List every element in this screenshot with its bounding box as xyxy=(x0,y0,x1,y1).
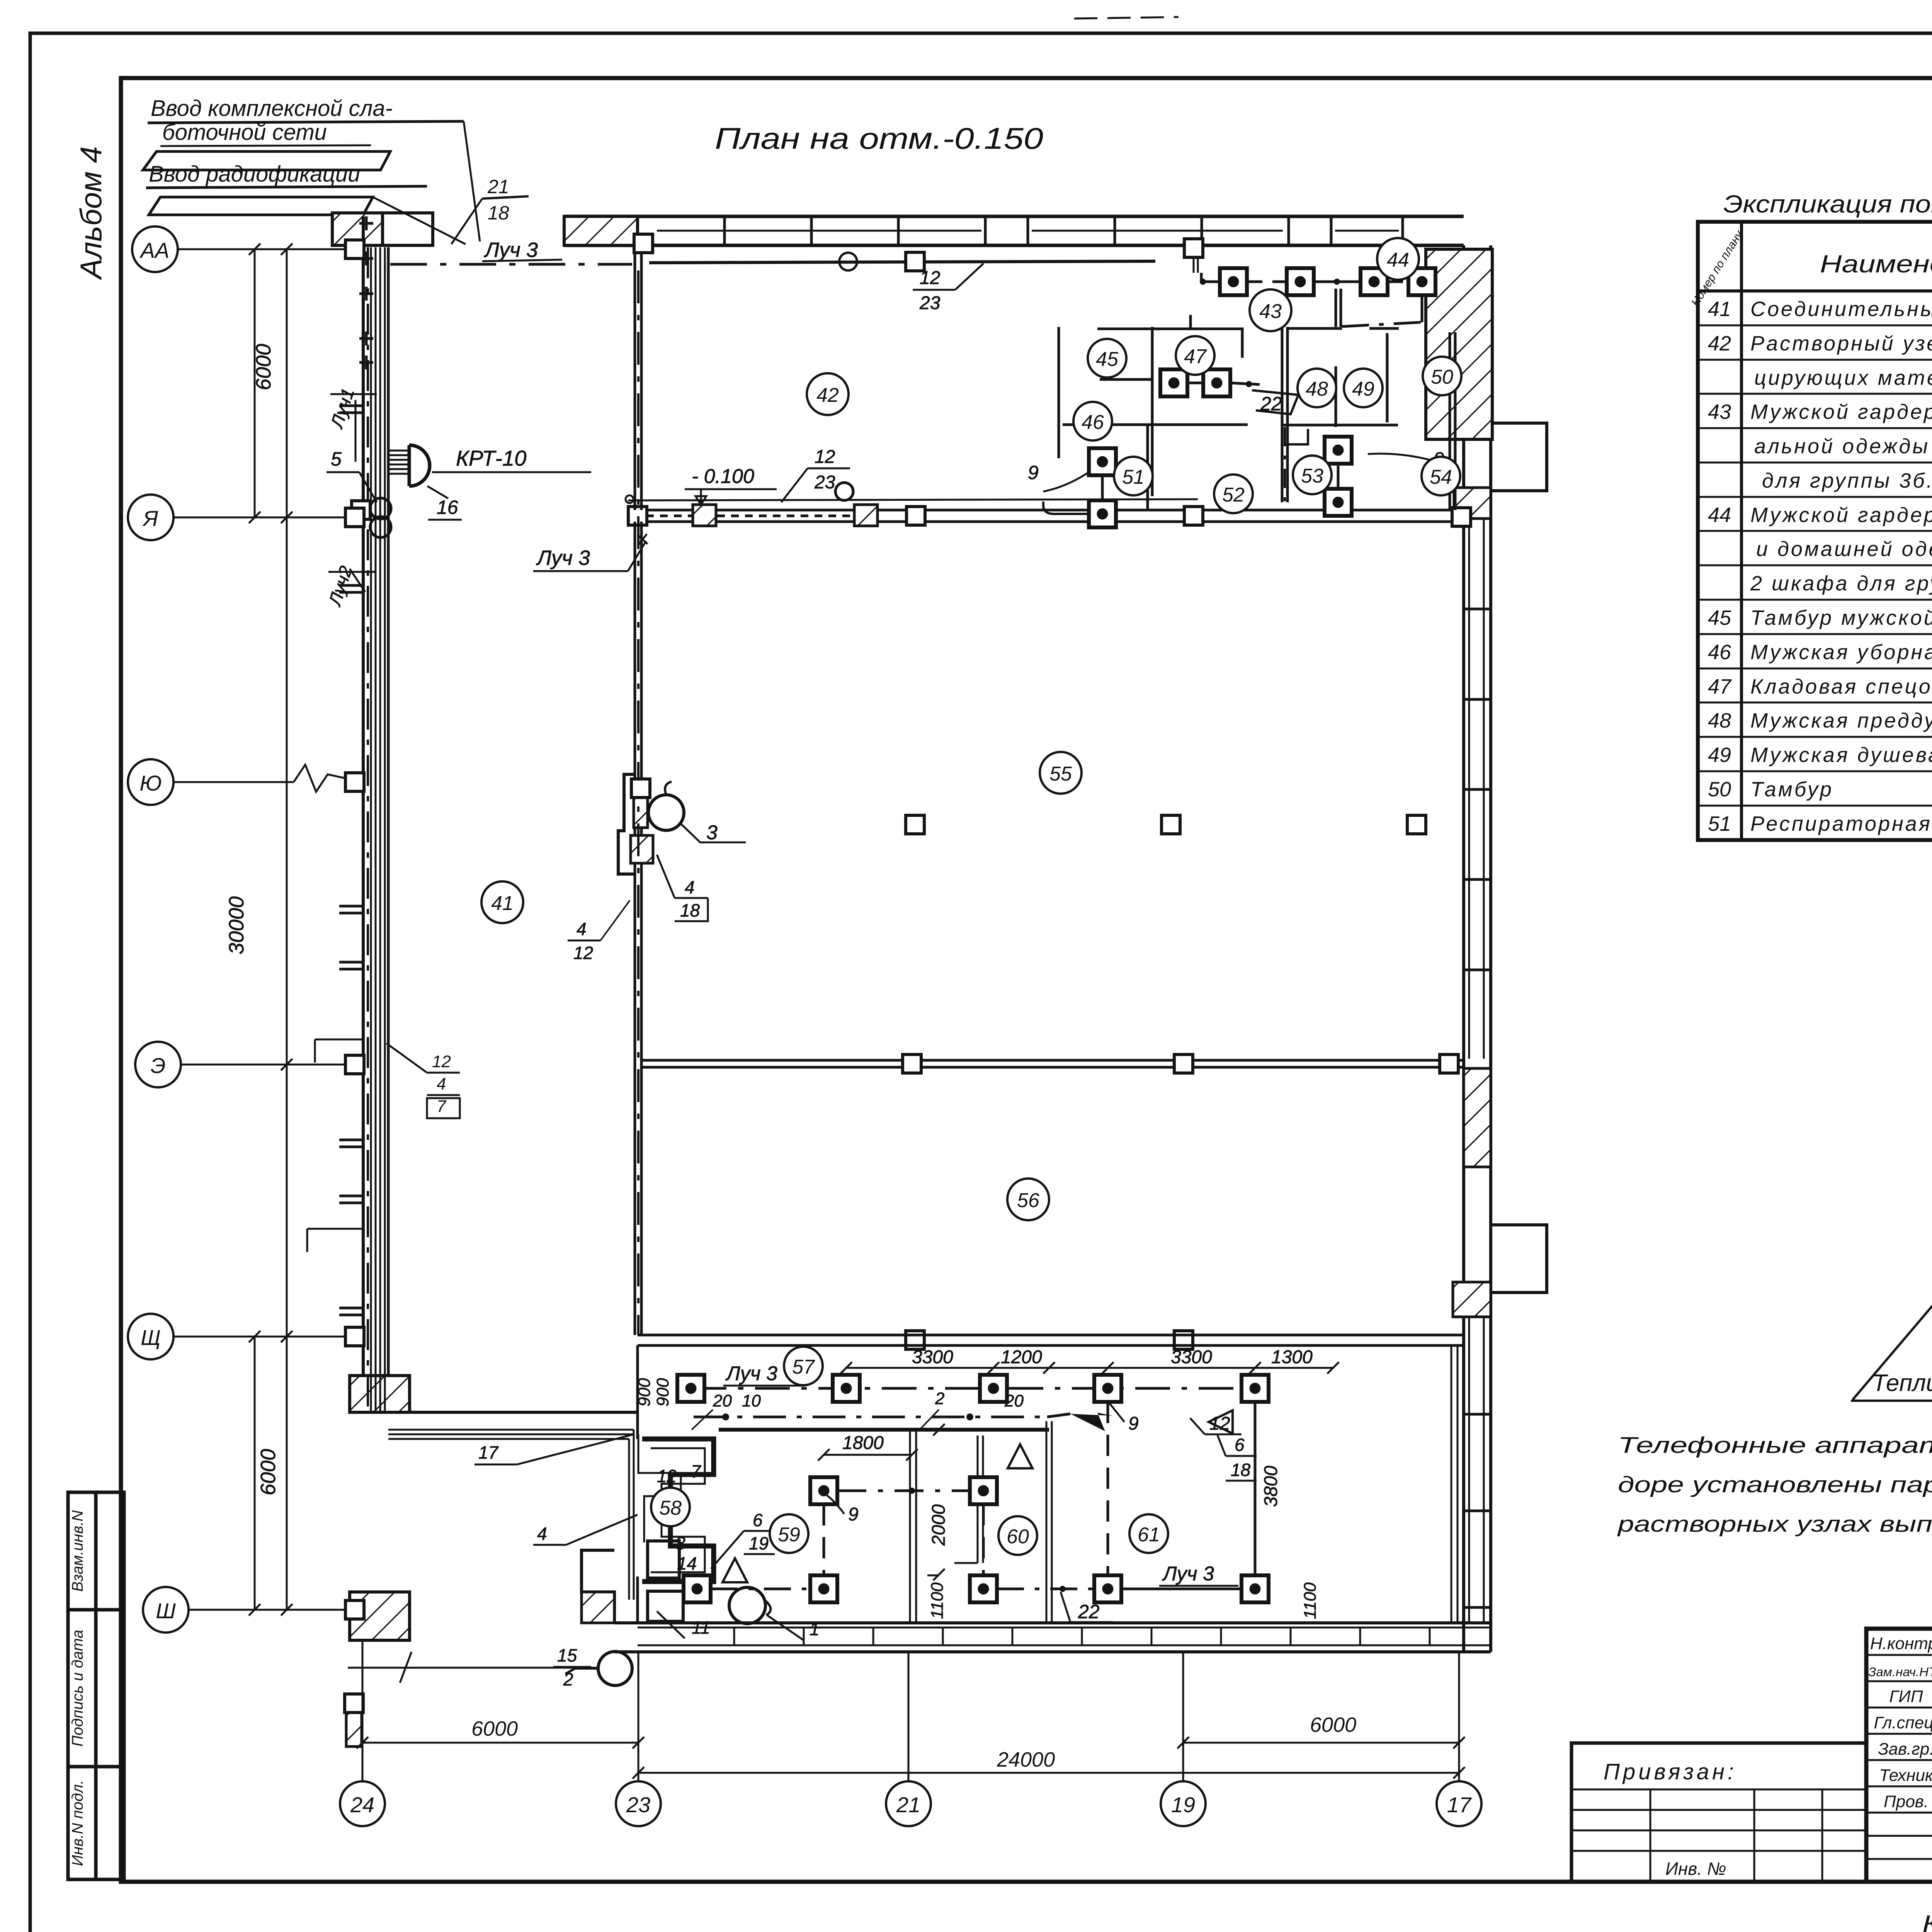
svg-text:54: 54 xyxy=(1430,466,1452,488)
room circle 56 xyxy=(1007,1179,1049,1220)
wall to lower block xyxy=(410,1411,638,1414)
tambur 58 walls xyxy=(642,1439,714,1582)
labels 20 10 2 20 xyxy=(713,1389,1024,1410)
personnel role labels xyxy=(1868,1634,1932,1811)
tee wall in room 60 xyxy=(954,1435,983,1563)
svg-text:Экспликация помещений: Экспликация помещений xyxy=(1723,190,1932,218)
free columns in hall 55 xyxy=(906,815,924,834)
svg-text:18: 18 xyxy=(680,900,700,920)
svg-text:Взам.инв.N: Взам.инв.N xyxy=(69,1510,86,1592)
room circle 46 xyxy=(1073,402,1112,440)
svg-text:доре установлены параллельн: доре установлены параллельно. Проводка в xyxy=(1618,1472,1932,1497)
svg-text:50: 50 xyxy=(1431,366,1453,388)
flag symbol 2 xyxy=(149,197,373,215)
svg-text:57: 57 xyxy=(792,1356,815,1378)
left wall wiring bundle xyxy=(371,247,385,1412)
svg-text:План на отм.-0.150: План на отм.-0.150 xyxy=(715,121,1043,155)
svg-text:12: 12 xyxy=(573,943,593,963)
lower block: luch3 row1 dash-dot xyxy=(692,1387,1256,1390)
wall squares on W1 xyxy=(628,507,647,525)
svg-text:42: 42 xyxy=(1708,332,1731,355)
KRT-10 semicircle xyxy=(409,445,430,486)
dim 3300 1200 row xyxy=(846,1367,1333,1369)
svg-text:12: 12 xyxy=(657,1466,677,1486)
svg-text:46: 46 xyxy=(1082,411,1104,434)
wire segments between boxes xyxy=(1247,281,1287,283)
svg-text:Гл.спец.: Гл.спец. xyxy=(1874,1713,1932,1732)
W1 hatched pier b xyxy=(854,505,878,526)
svg-text:Альбом 4: Альбом 4 xyxy=(74,146,108,281)
room circle 61 xyxy=(1129,1514,1168,1553)
fraction 21/18 xyxy=(487,176,509,224)
svg-text:19: 19 xyxy=(1171,1793,1195,1817)
bottom row wires xyxy=(711,1588,810,1590)
fraction 12/4/7 near grid Э xyxy=(432,1052,451,1116)
svg-text:Мужской гардероб уличной: Мужской гардероб уличной xyxy=(1750,503,1932,527)
hatched pier big on luch3 wall xyxy=(631,835,653,863)
svg-text:3800: 3800 xyxy=(1261,1466,1281,1507)
svg-text:61: 61 xyxy=(1138,1524,1160,1546)
svg-text:растворных узлах выполнена: растворных узлах выполнена в трубах. xyxy=(1617,1512,1932,1537)
svg-text:Респираторная: Респираторная xyxy=(1750,812,1932,835)
vertical wall at grid 23 (left of room 42) xyxy=(634,251,636,510)
room circle 41 xyxy=(481,881,523,923)
svg-text:Щ: Щ xyxy=(141,1325,161,1350)
svg-text:6000: 6000 xyxy=(257,1449,280,1495)
svg-text:45: 45 xyxy=(1096,348,1119,371)
svg-text:23: 23 xyxy=(814,472,835,493)
svg-text:51: 51 xyxy=(1122,466,1145,488)
circle symbol on W1 xyxy=(835,483,853,500)
square symbol on wire xyxy=(906,252,924,271)
svg-text:и домашней одежды на: и домашней одежды на xyxy=(1756,537,1932,561)
dim ticks on vertical 2000 line xyxy=(927,1424,951,1580)
svg-text:5: 5 xyxy=(331,448,342,470)
tambur cabinets xyxy=(648,1541,679,1578)
leader line 1 to corner xyxy=(464,121,480,241)
svg-text:16: 16 xyxy=(437,497,458,518)
left exterior wall xyxy=(362,216,365,1412)
svg-text:22: 22 xyxy=(1260,393,1282,415)
lower block left wall upper xyxy=(636,1345,639,1439)
room circle 42 xyxy=(807,373,849,415)
partition 49/50 top xyxy=(1369,327,1399,330)
svg-text:18: 18 xyxy=(1231,1460,1251,1480)
svg-text:45: 45 xyxy=(1708,606,1731,629)
svg-text:Соединительный коридор: Соединительный коридор xyxy=(1750,298,1932,321)
teplitsa leader xyxy=(1853,1289,1932,1400)
wire along W1 xyxy=(628,499,1198,500)
svg-text:1200: 1200 xyxy=(1001,1347,1042,1367)
room circle 50 xyxy=(1423,357,1461,395)
svg-text:41: 41 xyxy=(491,892,514,915)
outside pier below grid24 xyxy=(350,1592,410,1640)
svg-text:30000: 30000 xyxy=(225,896,248,954)
wall W2 between 55 and 56 xyxy=(641,1059,1464,1062)
right exterior wall xyxy=(1462,245,1465,1652)
margin stamp boxes xyxy=(68,1492,124,1879)
svg-text:3300: 3300 xyxy=(912,1347,953,1367)
flag symbol 1 xyxy=(143,151,390,170)
svg-text:9: 9 xyxy=(1128,1413,1139,1434)
svg-text:Луч 3: Луч 3 xyxy=(484,238,538,262)
svg-text:9: 9 xyxy=(1028,462,1039,483)
svg-text:900: 900 xyxy=(653,1378,672,1406)
svg-text:Луч 3: Луч 3 xyxy=(1162,1563,1214,1585)
svg-text:11: 11 xyxy=(692,1617,710,1638)
wire along top wall xyxy=(649,261,1155,263)
svg-text:Мужской гардероб специ-: Мужской гардероб специ- xyxy=(1750,400,1932,423)
boxes room 47 xyxy=(1160,369,1187,396)
small dot circle near W1 junction xyxy=(626,495,633,503)
partition 43/48 xyxy=(1281,327,1284,502)
svg-text:Привязан:: Привязан: xyxy=(1604,1759,1737,1784)
vertical dashes xyxy=(823,1504,825,1575)
svg-text:20: 20 xyxy=(1004,1391,1024,1410)
triangles earth symbols xyxy=(723,1558,747,1582)
partition 47 bottom xyxy=(1063,423,1248,426)
bottom grid circles xyxy=(340,1781,1481,1826)
inner leaf near room 50 xyxy=(1449,332,1451,510)
svg-text:Мужская душевая: Мужская душевая xyxy=(1750,743,1932,767)
svg-text:24000: 24000 xyxy=(997,1748,1055,1771)
partition 49/50 xyxy=(1386,333,1389,422)
corridor bundle to tambur xyxy=(388,1430,634,1600)
room circle 59 xyxy=(770,1514,808,1553)
svg-text:- 0.100: - 0.100 xyxy=(692,465,754,488)
svg-text:Тамбур мужской уборной: Тамбур мужской уборной xyxy=(1750,606,1932,629)
svg-text:21: 21 xyxy=(487,176,509,197)
row2 continuation to 61 xyxy=(1047,1414,1070,1417)
dim line outside porch xyxy=(348,1667,597,1669)
svg-text:Ввод комплексной сла-: Ввод комплексной сла- xyxy=(151,96,393,121)
personnel rows xyxy=(1866,1655,1932,1859)
svg-text:для группы 3б.: для группы 3б. xyxy=(1762,469,1932,492)
svg-text:Луч 3: Луч 3 xyxy=(536,546,590,570)
svg-text:4: 4 xyxy=(537,1524,547,1544)
right wall bay 2 xyxy=(1491,1225,1547,1293)
room circle 57 xyxy=(784,1347,823,1385)
svg-text:Теплица: Теплица xyxy=(1872,1370,1932,1396)
svg-text:Я: Я xyxy=(142,506,158,531)
hatched pier small on luch3 wall xyxy=(634,795,648,828)
svg-text:49: 49 xyxy=(1708,743,1731,767)
table 1 numbers xyxy=(1708,298,1732,835)
dash wire 48 down xyxy=(1284,427,1286,510)
room circle 44 xyxy=(1377,238,1419,280)
W1 in-wall dashes xyxy=(646,515,692,517)
svg-text:Тамбур: Тамбур xyxy=(1750,778,1833,801)
svg-text:Растворный узел дезинфи-: Растворный узел дезинфи- xyxy=(1750,332,1932,355)
svg-text:4: 4 xyxy=(577,919,587,939)
partition 60/61 xyxy=(1046,1421,1048,1623)
fraction 15/2 xyxy=(557,1645,577,1689)
svg-text:51: 51 xyxy=(1708,812,1731,835)
lower block inner right leaf xyxy=(1451,1345,1452,1623)
svg-text:42: 42 xyxy=(816,384,839,406)
porch left of tambur xyxy=(582,1550,614,1623)
phone circle room 59 xyxy=(729,1587,765,1624)
svg-text:Кладовая спецодежды: Кладовая спецодежды xyxy=(1750,675,1932,698)
svg-text:КРТ-10: КРТ-10 xyxy=(456,446,526,470)
svg-text:1: 1 xyxy=(810,1619,820,1639)
room circle 60 xyxy=(998,1516,1037,1555)
circle symbol on wire xyxy=(839,253,857,270)
privyazan box xyxy=(1571,1743,1866,1882)
svg-text:4: 4 xyxy=(685,877,695,897)
svg-text:58: 58 xyxy=(659,1497,682,1519)
svg-text:Ввод радиофикации: Ввод радиофикации xyxy=(149,162,360,187)
svg-text:Инв.N подл.: Инв.N подл. xyxy=(69,1780,86,1866)
row1 boxes xyxy=(677,1375,704,1402)
svg-text:12: 12 xyxy=(920,268,940,288)
svg-text:3300: 3300 xyxy=(1171,1347,1212,1367)
room circle 53 xyxy=(1293,456,1332,494)
right wall top hatched slab xyxy=(1426,249,1492,439)
label 6/19 xyxy=(749,1510,769,1553)
fraction 4/12 xyxy=(573,919,593,963)
wall 43/44 stub xyxy=(1335,289,1337,327)
svg-text:Телефонные аппараты в раство: Телефонные аппараты в растворном узле и … xyxy=(1618,1433,1932,1458)
bundle hook at tambur xyxy=(638,1434,681,1543)
svg-text:44: 44 xyxy=(1708,503,1731,527)
svg-text:2000: 2000 xyxy=(929,1504,949,1546)
svg-text:60: 60 xyxy=(1007,1526,1029,1548)
room circle 55 xyxy=(1040,752,1082,794)
partition 45/47 top xyxy=(1097,329,1242,358)
interior wall W1 below rooms 42-54 xyxy=(638,509,1464,512)
svg-text:6000: 6000 xyxy=(1310,1713,1356,1736)
luch3 vertical dash-dot xyxy=(637,270,639,1335)
svg-text:Ю: Ю xyxy=(139,771,162,795)
svg-text:Э: Э xyxy=(151,1053,166,1078)
room circle 52 xyxy=(1214,474,1253,513)
leader line 2 to corner xyxy=(373,197,466,244)
svg-text:3: 3 xyxy=(706,821,718,844)
svg-text:АА: АА xyxy=(139,238,170,262)
svg-text:Мужская преддушевая: Мужская преддушевая xyxy=(1750,709,1932,732)
row2 dash-dot corridor xyxy=(694,1416,1047,1418)
lower block left wall lower xyxy=(636,1577,639,1623)
svg-text:19: 19 xyxy=(749,1533,769,1553)
table 1 grid xyxy=(1698,222,1932,840)
luch3 dash-dot across top xyxy=(390,263,632,266)
svg-text:цирующих материалов: цирующих материалов xyxy=(1754,366,1932,389)
svg-text:52: 52 xyxy=(1222,484,1245,506)
svg-text:Техник: Техник xyxy=(1879,1766,1932,1785)
svg-text:6: 6 xyxy=(753,1510,763,1530)
svg-text:9: 9 xyxy=(848,1504,859,1525)
right wall hatched piers xyxy=(1454,488,1491,519)
luch3 wall jog outline xyxy=(618,774,635,874)
svg-text:Инв. №: Инв. № xyxy=(1665,1859,1726,1879)
room circle 45 xyxy=(1088,339,1126,378)
svg-text:2: 2 xyxy=(935,1389,944,1408)
svg-text:6: 6 xyxy=(1235,1435,1245,1455)
svg-text:12: 12 xyxy=(1209,1413,1230,1434)
svg-text:12: 12 xyxy=(432,1052,451,1071)
svg-text:53: 53 xyxy=(1301,465,1323,487)
svg-text:48: 48 xyxy=(1708,709,1731,732)
svg-text:7: 7 xyxy=(437,1097,447,1116)
lower block top wall xyxy=(638,1334,1464,1337)
room circle 54 xyxy=(1422,457,1460,495)
bottom dim line row1 xyxy=(357,1737,1465,1748)
svg-text:1300: 1300 xyxy=(1271,1347,1313,1367)
left wall window ticks xyxy=(339,406,363,1315)
bottom grid leaders xyxy=(362,1640,1459,1781)
right wall window leafs xyxy=(1469,519,1484,1623)
svg-text:15: 15 xyxy=(557,1645,577,1665)
svg-text:1100: 1100 xyxy=(1301,1582,1320,1619)
lower block bottom wall xyxy=(614,1621,1491,1624)
svg-text:44: 44 xyxy=(1387,249,1409,271)
table 1 rows xyxy=(1750,298,1932,835)
room circle 51 xyxy=(1114,457,1153,495)
svg-text:900: 900 xyxy=(635,1378,654,1406)
bottom dim line row2 xyxy=(638,1772,1459,1774)
svg-text:50: 50 xyxy=(1708,778,1731,801)
fraction 12/23 mid xyxy=(814,447,835,493)
svg-text:ГИП: ГИП xyxy=(1889,1687,1923,1706)
left grid leaders xyxy=(173,249,363,1610)
junction boxes room 43/44 xyxy=(1220,268,1247,295)
right wall bay 1 xyxy=(1491,423,1547,491)
columns in hall 56 xyxy=(906,1331,924,1349)
svg-text:55: 55 xyxy=(1049,763,1072,785)
svg-text:4: 4 xyxy=(437,1075,446,1094)
boxes room 53 xyxy=(1325,437,1352,464)
svg-text:23: 23 xyxy=(919,293,940,313)
partition 59/60 xyxy=(909,1430,911,1623)
svg-text:17: 17 xyxy=(478,1442,499,1463)
fraction 12/23 top xyxy=(919,268,940,313)
svg-text:59: 59 xyxy=(778,1524,800,1546)
W1 hatched pier a xyxy=(693,505,716,526)
drop from box 44 xyxy=(1421,295,1423,322)
svg-text:18: 18 xyxy=(488,202,509,224)
labels 12 7 8 14 11 1 17 4 xyxy=(478,1442,820,1639)
scan speck line top xyxy=(1074,17,1179,19)
svg-text:47: 47 xyxy=(1184,345,1207,368)
svg-text:20: 20 xyxy=(713,1391,732,1410)
partition below 48/49 xyxy=(1282,424,1398,427)
corridor 57 south wall xyxy=(719,1428,1049,1432)
left dim vertical lines xyxy=(249,243,293,1616)
partition 48/49 xyxy=(1335,366,1337,427)
crosses marks on entry xyxy=(359,216,373,369)
svg-text:Ш: Ш xyxy=(156,1599,176,1623)
svg-text:46: 46 xyxy=(1708,641,1731,664)
svg-text:43: 43 xyxy=(1259,300,1282,323)
jog down to box row xyxy=(1155,261,1201,283)
svg-text:Н.контр.: Н.контр. xyxy=(1870,1634,1932,1653)
svg-text:Зам.нач.НТК: Зам.нач.НТК xyxy=(1868,1665,1932,1679)
partition 48 top xyxy=(1287,327,1342,330)
svg-text:1100: 1100 xyxy=(928,1582,947,1619)
svg-text:12: 12 xyxy=(815,447,835,467)
svg-text:47: 47 xyxy=(1708,675,1732,698)
svg-text:17: 17 xyxy=(1447,1793,1472,1817)
top wall left block xyxy=(332,213,433,245)
square with stem at jog xyxy=(1184,239,1203,257)
svg-text:6000: 6000 xyxy=(252,344,275,390)
top wall main band xyxy=(564,215,1464,218)
wall squares at grid lines xyxy=(345,240,364,1619)
title block outline xyxy=(1866,1629,1932,1882)
svg-text:22: 22 xyxy=(1078,1601,1100,1622)
svg-text:10: 10 xyxy=(742,1391,761,1410)
svg-text:Копировал Муратова: Копировал Муратова xyxy=(1922,1911,1932,1932)
left wall dash-dot radio line xyxy=(367,247,369,1412)
top wall window dividers xyxy=(724,216,1403,245)
fraction 4/18 flag xyxy=(680,877,700,920)
svg-text:Наименование: Наименование xyxy=(1820,250,1932,278)
room circle 49 xyxy=(1344,369,1383,407)
room circle 43 xyxy=(1250,289,1291,331)
radio transformers xyxy=(370,498,391,519)
partition 45/46 xyxy=(1100,378,1152,381)
svg-text:Пров.: Пров. xyxy=(1884,1792,1929,1811)
bottom-left hatched corner pier xyxy=(350,1376,410,1412)
svg-text:боточной сети: боточной сети xyxy=(162,120,327,145)
svg-text:2 шкафа для группы 3б: 2 шкафа для группы 3б xyxy=(1750,572,1932,595)
outside small pier xyxy=(346,1710,362,1747)
mid boxes xyxy=(810,1477,837,1504)
svg-text:56: 56 xyxy=(1017,1189,1039,1212)
svg-text:Мужская уборная: Мужская уборная xyxy=(1750,641,1932,664)
svg-text:8: 8 xyxy=(675,1533,685,1553)
svg-text:23: 23 xyxy=(626,1793,650,1817)
svg-text:Подпись и дата: Подпись и дата xyxy=(69,1630,86,1747)
label 6/18 right xyxy=(1231,1435,1251,1480)
svg-text:14: 14 xyxy=(677,1553,697,1573)
svg-text:7: 7 xyxy=(691,1461,701,1481)
svg-text:Луч 3: Луч 3 xyxy=(725,1362,777,1385)
dim 1800 xyxy=(824,1454,912,1456)
flag 22 xyxy=(1252,390,1298,414)
svg-text:6000: 6000 xyxy=(471,1717,518,1740)
boxes room 51 xyxy=(1089,448,1116,475)
svg-text:43: 43 xyxy=(1708,400,1731,423)
square on luch3 at jog xyxy=(631,779,650,798)
room circle 58 xyxy=(651,1488,690,1526)
bottom dim labels xyxy=(471,1713,1356,1771)
phone circle outside xyxy=(598,1651,632,1685)
svg-text:Зав.гр.: Зав.гр. xyxy=(1878,1740,1932,1759)
KRT bundle elbow xyxy=(388,451,409,474)
luch3 vertical wall lines below W1 xyxy=(634,522,636,1335)
svg-text:24: 24 xyxy=(350,1793,374,1817)
partition 45/47 vertical xyxy=(1151,327,1154,496)
left grid circles xyxy=(128,226,189,1633)
left wall lower protrusions xyxy=(307,1039,363,1252)
svg-text:21: 21 xyxy=(896,1793,920,1817)
svg-text:41: 41 xyxy=(1708,298,1731,321)
svg-text:49: 49 xyxy=(1352,378,1374,400)
room circle 47 xyxy=(1176,336,1214,375)
square on luch3 top xyxy=(634,234,653,253)
svg-text:48: 48 xyxy=(1306,378,1328,400)
partition 51/52 xyxy=(1146,425,1149,510)
svg-text:альной одежды на 2шкафа: альной одежды на 2шкафа xyxy=(1754,435,1932,458)
svg-text:2: 2 xyxy=(563,1669,573,1689)
svg-text:1800: 1800 xyxy=(842,1433,884,1453)
bottom row boxes xyxy=(684,1575,711,1602)
phone circle 3 on luch3 xyxy=(648,795,684,830)
partition room45 left xyxy=(1058,327,1060,458)
room circle 48 xyxy=(1298,369,1336,407)
